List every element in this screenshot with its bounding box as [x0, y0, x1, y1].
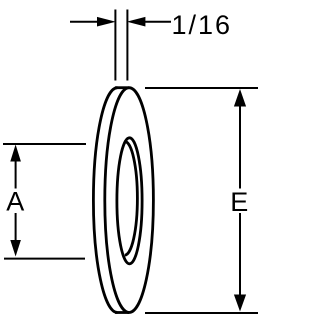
svg-text:A: A — [6, 187, 24, 217]
dim A arrow line lower — [15, 213, 17, 252]
dim E arrowhead up — [234, 89, 246, 107]
dim E arrow line upper — [239, 95, 241, 189]
svg-text:1/16: 1/16 — [172, 10, 233, 40]
thickness extension line right — [126, 10, 128, 81]
dim A arrowhead up — [10, 145, 21, 162]
washer hole back edge (right half arc) — [125, 142, 138, 256]
thickness arrowhead right (points left) — [127, 17, 146, 27]
dim A arrow line upper — [15, 150, 17, 189]
dim A bottom extension line — [4, 258, 85, 260]
washer bottom edge segment — [115, 311, 129, 314]
svg-text:E: E — [230, 187, 248, 217]
thickness leader line right — [143, 21, 171, 23]
thickness arrowhead left (points right) — [97, 17, 116, 27]
dim E arrowhead down — [234, 295, 246, 312]
dim A top extension line — [3, 143, 86, 145]
dim E bottom extension line — [145, 312, 258, 314]
thickness leader line left — [70, 21, 99, 23]
thickness extension line left — [114, 10, 116, 81]
dim E arrow line lower — [239, 213, 241, 305]
dim A arrowhead down — [10, 240, 21, 257]
washer back outer edge (left half ellipse) — [93, 88, 117, 313]
washer top edge segment — [115, 86, 129, 89]
dim E top extension line — [145, 87, 258, 89]
washer hole front ellipse — [117, 138, 142, 264]
washer front face outer ellipse — [105, 88, 154, 313]
